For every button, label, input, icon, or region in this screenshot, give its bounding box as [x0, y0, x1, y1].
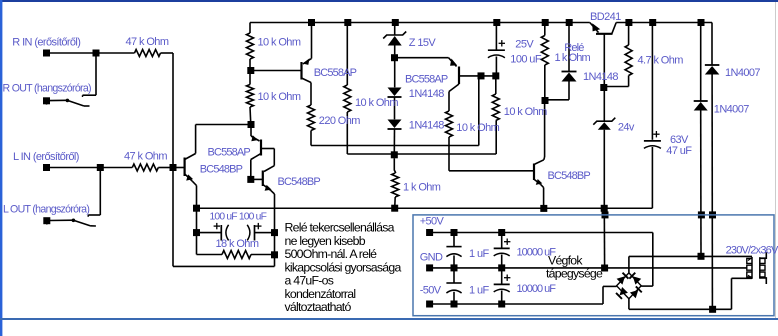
svg-text:BC558AP: BC558AP: [314, 67, 357, 79]
svg-text:25V: 25V: [515, 38, 534, 50]
svg-text:10 k Ohm: 10 k Ohm: [504, 106, 547, 118]
svg-text:1N4148: 1N4148: [409, 119, 444, 131]
svg-text:Z 15V: Z 15V: [409, 37, 437, 49]
svg-text:10 k Ohm: 10 k Ohm: [355, 97, 398, 109]
svg-text:4.7 k Ohm: 4.7 k Ohm: [638, 55, 684, 67]
svg-text:24v: 24v: [618, 121, 635, 133]
svg-text:10000 uF: 10000 uF: [517, 283, 557, 295]
svg-text:10 k Ohm: 10 k Ohm: [258, 37, 301, 49]
svg-text:1 k Ohm: 1 k Ohm: [403, 182, 441, 194]
svg-text:1 uF: 1 uF: [469, 248, 489, 260]
svg-text:tápegysége: tápegysége: [546, 267, 603, 281]
svg-text:10 k Ohm: 10 k Ohm: [258, 91, 301, 103]
svg-text:BD241: BD241: [590, 11, 621, 23]
svg-text:változtaatható: változtaatható: [285, 300, 352, 314]
svg-text:220 Ohm: 220 Ohm: [319, 115, 360, 127]
svg-text:BC548BP: BC548BP: [200, 164, 243, 176]
svg-text:L OUT (hangszóróra): L OUT (hangszóróra): [3, 204, 89, 216]
svg-text:1 uF: 1 uF: [469, 284, 489, 296]
svg-text:18 k Ohm: 18 k Ohm: [216, 238, 259, 250]
svg-text:kikapcsolási gyorsasága: kikapcsolási gyorsasága: [285, 260, 402, 274]
svg-text:Végfok: Végfok: [548, 253, 583, 267]
svg-text:BC548BP: BC548BP: [548, 170, 591, 182]
svg-text:kondenzátorral: kondenzátorral: [285, 287, 356, 301]
svg-text:ne legyen kisebb: ne legyen kisebb: [285, 234, 366, 248]
svg-text:+50V: +50V: [420, 216, 445, 228]
svg-text:GND: GND: [420, 252, 443, 264]
svg-text:47 uF: 47 uF: [666, 145, 692, 157]
svg-text:L IN (erősítőről): L IN (erősítőről): [13, 151, 79, 163]
svg-text:10 k Ohm: 10 k Ohm: [456, 122, 499, 134]
svg-text:1 k Ohm: 1 k Ohm: [555, 52, 591, 64]
svg-text:R OUT (hangszóróra): R OUT (hangszóróra): [3, 82, 92, 94]
svg-text:Relé tekercsellenállása: Relé tekercsellenállása: [285, 221, 395, 235]
svg-text:100 uF: 100 uF: [510, 54, 542, 66]
svg-text:1N4007: 1N4007: [714, 104, 749, 116]
svg-text:BC558AP: BC558AP: [405, 74, 448, 86]
svg-text:BC548BP: BC548BP: [278, 176, 321, 188]
svg-text:47 k Ohm: 47 k Ohm: [124, 151, 167, 163]
svg-text:500Ohm-nál. A relé: 500Ohm-nál. A relé: [285, 247, 378, 261]
svg-text:1N4148: 1N4148: [409, 88, 444, 100]
svg-text:a 47uF-os: a 47uF-os: [285, 274, 334, 288]
svg-text:1N4007: 1N4007: [725, 67, 760, 79]
svg-text:47 k Ohm: 47 k Ohm: [126, 36, 169, 48]
svg-text:-50V: -50V: [420, 284, 442, 296]
svg-text:R IN (erősítőről): R IN (erősítőről): [12, 36, 80, 48]
svg-text:230V/2x36V: 230V/2x36V: [726, 244, 778, 256]
svg-text:100 uF 100 uF: 100 uF 100 uF: [210, 211, 267, 222]
svg-text:1N4148: 1N4148: [583, 71, 618, 83]
svg-text:BC558AP: BC558AP: [208, 147, 251, 159]
